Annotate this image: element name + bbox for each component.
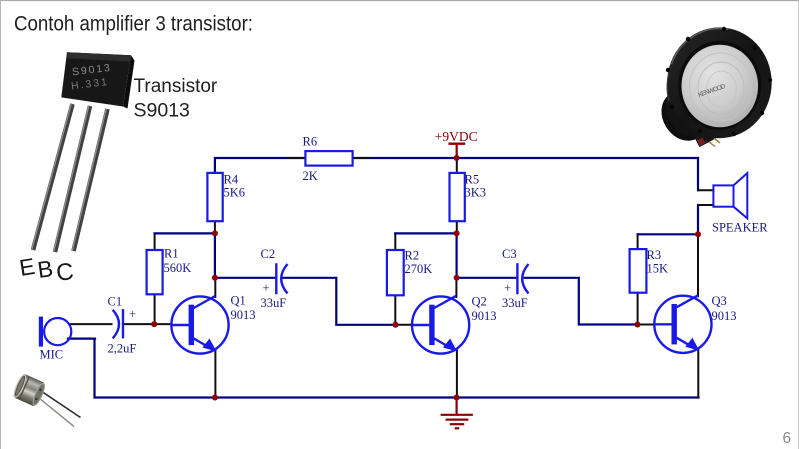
- svg-text:9013: 9013: [231, 308, 256, 322]
- svg-text:270K: 270K: [405, 262, 433, 276]
- wire R5 top stub: [456, 158, 458, 173]
- svg-text:R2: R2: [405, 249, 420, 263]
- junction Q2 collector node: [454, 275, 460, 281]
- svg-text:C2: C2: [261, 247, 276, 261]
- svg-text:Q3: Q3: [712, 294, 727, 308]
- junction speaker/R3 node: [695, 231, 701, 237]
- svg-text:Q1: Q1: [231, 294, 246, 308]
- svg-text:MIC: MIC: [40, 348, 64, 362]
- svg-text:3K3: 3K3: [465, 186, 487, 200]
- wire C2 out: [284, 278, 396, 325]
- svg-text:Transistor: Transistor: [134, 76, 218, 97]
- wire R2 top to node: [395, 232, 456, 234]
- wire mic top to C1: [71, 323, 112, 325]
- wire R1 top stub: [154, 233, 156, 250]
- ground: [441, 398, 473, 429]
- junction Q2 base node: [393, 322, 399, 328]
- transistor Q2: [412, 296, 469, 354]
- svg-text:33uF: 33uF: [502, 296, 528, 310]
- resistor R6: [305, 151, 352, 166]
- speaker magnet: [652, 83, 715, 149]
- wire Q2 emitter to bus: [456, 351, 458, 398]
- speaker symbol: [713, 173, 747, 218]
- wire C3 out: [525, 278, 638, 325]
- wire R3 top stub: [637, 234, 639, 249]
- svg-text:C3: C3: [502, 247, 517, 261]
- slide edge lines: [0, 0, 799, 2]
- screw dots on ring: [666, 27, 772, 136]
- wire Q3 collector stub: [697, 234, 699, 296]
- wire speaker stub bottom: [698, 204, 713, 206]
- wire R2 bottom stub: [394, 295, 396, 325]
- wire R6 left stub: [288, 157, 305, 159]
- wire R1 top to node: [155, 232, 215, 234]
- +9VDC power marker: [448, 144, 465, 158]
- junction R4/R1 node: [212, 230, 218, 236]
- svg-text:Q2: Q2: [472, 295, 487, 309]
- wire R2 top stub: [394, 233, 396, 250]
- junction Q1 collector node: [212, 275, 218, 281]
- wire node to collector node Q2: [456, 233, 458, 277]
- svg-text:+9VDC: +9VDC: [435, 129, 478, 144]
- capacitor C1: [113, 309, 123, 338]
- transistor leg C: [74, 109, 108, 251]
- transistor leg B: [55, 106, 90, 252]
- speaker photo: [652, 27, 772, 153]
- wire speaker column upper: [697, 158, 699, 190]
- speaker cone: [682, 45, 759, 128]
- svg-text:9013: 9013: [472, 309, 497, 323]
- svg-text:R3: R3: [647, 248, 662, 262]
- electrolytic capacitor photo: [11, 373, 80, 427]
- capacitor leg 1: [43, 392, 81, 417]
- wire R4 bottom stub: [214, 221, 216, 233]
- wire Q3 emitter to bus: [697, 350, 699, 398]
- svg-text:2K: 2K: [303, 169, 318, 183]
- junction Q3 base node: [635, 322, 641, 328]
- svg-text:6: 6: [783, 430, 792, 447]
- wire collector node to C2: [215, 277, 276, 279]
- speaker terminals: [694, 127, 722, 153]
- svg-text:C: C: [55, 258, 76, 287]
- wire R3 bottom stub: [637, 293, 639, 325]
- transistor leg E: [33, 104, 73, 250]
- wire speaker column lower: [697, 205, 699, 234]
- svg-text:2,2uF: 2,2uF: [108, 342, 137, 356]
- wire C1 to Q1 base: [124, 323, 172, 325]
- wire R3 top to node: [638, 233, 698, 235]
- capacitor C2: [276, 263, 287, 294]
- transistor Q3: [654, 295, 711, 353]
- resistor R2: [387, 250, 404, 295]
- svg-text:+: +: [263, 281, 270, 295]
- svg-text:5K6: 5K6: [224, 186, 246, 200]
- svg-text:+: +: [504, 281, 511, 295]
- wire to Q2 base: [396, 324, 414, 326]
- wire R1 bottom stub: [154, 294, 156, 324]
- junction +9VDC supply node: [454, 155, 460, 161]
- capacitor can body: [11, 373, 47, 408]
- capacitor leg 2: [41, 399, 74, 426]
- svg-text:33uF: 33uF: [261, 296, 287, 310]
- junction Q1 emitter ground node: [212, 395, 218, 401]
- wire R5 bottom stub: [456, 221, 458, 233]
- svg-text:15K: 15K: [647, 262, 669, 276]
- resistor R5: [450, 173, 465, 221]
- wire speaker stub top: [698, 189, 713, 191]
- svg-text:SPEAKER: SPEAKER: [712, 221, 768, 235]
- capacitor C3: [517, 263, 528, 294]
- wire Q1 emitter to bus: [214, 351, 216, 398]
- resistor R3: [630, 249, 647, 293]
- resistor R1: [147, 250, 163, 294]
- svg-text:R6: R6: [303, 135, 318, 149]
- wire top bus: [215, 158, 698, 173]
- junction ground node: [454, 395, 460, 401]
- transistor photo group: [32, 52, 135, 252]
- svg-text:C1: C1: [108, 295, 123, 309]
- svg-text:+: +: [129, 307, 136, 321]
- svg-text:R4: R4: [224, 172, 239, 186]
- svg-text:9013: 9013: [712, 309, 737, 323]
- wire node to collector node Q1: [214, 233, 216, 277]
- svg-text:Contoh amplifier 3 transistor:: Contoh amplifier 3 transistor:: [14, 13, 253, 36]
- speaker surround gap: [678, 41, 761, 130]
- svg-text:S9013: S9013: [134, 100, 190, 122]
- wire R6 right stub: [353, 157, 370, 159]
- microphone MIC: [39, 317, 72, 347]
- wire to Q3 base: [638, 324, 656, 326]
- speaker outer ring: [667, 27, 772, 138]
- junction R5/R2 node: [454, 230, 460, 236]
- svg-text:560K: 560K: [164, 261, 192, 275]
- wire Q2 collector stub: [455, 278, 457, 297]
- transistor S9013 body: [61, 52, 131, 106]
- wire Q1 collector stub: [214, 278, 216, 297]
- svg-text:R5: R5: [465, 172, 480, 186]
- wire bottom bus: [95, 339, 699, 398]
- junction Q1 base node: [151, 321, 157, 327]
- wire mic bottom: [68, 338, 95, 340]
- wire collector node to C3: [457, 277, 517, 279]
- transistor Q1: [171, 296, 228, 354]
- resistor R4: [207, 173, 222, 221]
- svg-text:R1: R1: [164, 247, 179, 261]
